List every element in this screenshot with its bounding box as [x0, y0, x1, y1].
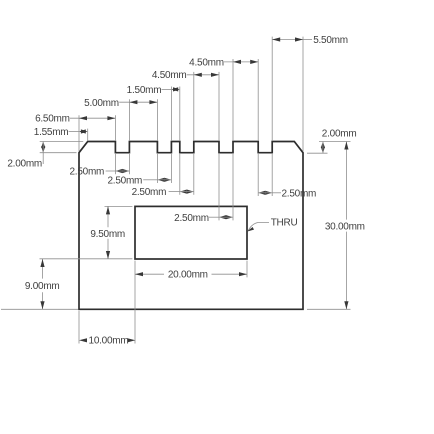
extension line slot2 left up	[156, 99, 158, 140]
dimension 9.00mm hole-bottom-to-part-bottom	[25, 259, 60, 309]
svg-text:30.00mm: 30.00mm	[325, 221, 365, 232]
extension line slot1 right up	[128, 99, 130, 140]
extension line left chamfer corner up	[87, 129, 89, 141]
extension line part right edge up	[302, 37, 304, 152]
extension line right chamfer bottom	[307, 152, 328, 154]
dimension 30.00mm part height	[325, 142, 365, 310]
svg-text:2.00mm: 2.00mm	[7, 159, 42, 170]
extension line slot3 left up	[179, 87, 181, 141]
dimension 1.50mm slot2-slot3 tab	[127, 85, 180, 96]
dimension 9.50mm hole height	[90, 206, 125, 259]
svg-text:2.50mm: 2.50mm	[108, 175, 143, 186]
svg-text:2.50mm: 2.50mm	[174, 213, 209, 224]
extension line slot2 right up	[170, 87, 172, 141]
extension line slot2 left down	[156, 154, 158, 183]
extension line slot4 right down	[232, 154, 234, 220]
extension line slot5 right down	[271, 154, 273, 196]
rectangular thru hole	[135, 206, 247, 259]
svg-text:4.50mm: 4.50mm	[152, 70, 187, 81]
part outline with five top slots and chamfered corners	[79, 142, 303, 310]
extension line part left edge up	[78, 115, 80, 151]
svg-text:9.00mm: 9.00mm	[25, 281, 60, 292]
extension line slot1 left down	[114, 154, 116, 174]
svg-text:4.50mm: 4.50mm	[189, 57, 224, 68]
svg-text:2.50mm: 2.50mm	[70, 167, 105, 178]
dimension 10.00mm left-edge-to-hole	[79, 336, 135, 347]
svg-text:1.55mm: 1.55mm	[34, 127, 69, 138]
dimension 5.50mm slot5-to-right-edge	[272, 35, 348, 46]
extension line slot4 right up	[232, 59, 234, 140]
dimension 4.50mm slot3-slot4 tab	[152, 70, 219, 81]
dimension 2.50mm slot5 width	[258, 188, 316, 199]
svg-text:9.50mm: 9.50mm	[90, 229, 125, 240]
extension line left chamfer bottom	[40, 152, 77, 154]
svg-text:2.00mm: 2.00mm	[322, 128, 357, 139]
extension line part bottom left	[1, 308, 78, 310]
extension line slot1 right down	[128, 154, 130, 174]
extension line hole bottom left long	[40, 258, 133, 260]
extension line slot3 right up	[193, 72, 195, 140]
extension line top edge left	[40, 141, 83, 143]
extension line slot3 left down	[179, 154, 181, 195]
dimension 2.50mm slot2 width	[108, 175, 172, 186]
dimension 2.00mm right chamfer height	[321, 128, 357, 153]
svg-text:6.50mm: 6.50mm	[35, 114, 70, 125]
dimension 6.50mm left-edge-to-slot1	[35, 114, 115, 125]
extension line slot1 left up	[114, 115, 116, 140]
extension line hole right edge down	[246, 261, 248, 278]
extension line part bottom right	[307, 308, 351, 310]
dimension 2.50mm slot3 width	[132, 187, 194, 198]
extension line part top right	[319, 141, 351, 143]
svg-text:5.50mm: 5.50mm	[313, 35, 348, 46]
extension line slot5 right up	[271, 37, 273, 141]
svg-text:1.50mm: 1.50mm	[127, 85, 162, 96]
extension line slot3 right down	[193, 154, 195, 195]
extension line slot5 left up	[257, 59, 259, 140]
dimension 5.00mm slot1-slot2 tab	[84, 98, 157, 109]
extension line hole top left	[105, 205, 133, 207]
extension line hole left edge down	[134, 261, 136, 344]
dimension 2.50mm slot1 width	[70, 167, 130, 178]
dimension 2.00mm left chamfer height	[7, 142, 45, 170]
svg-text:20.00mm: 20.00mm	[168, 270, 208, 281]
svg-text:5.00mm: 5.00mm	[84, 98, 119, 109]
THRU hole callout leader	[248, 223, 269, 231]
svg-text:THRU: THRU	[271, 218, 298, 229]
svg-text:2.50mm: 2.50mm	[282, 188, 317, 199]
extension line slot4 left down	[218, 154, 220, 220]
extension line slot2 right down	[170, 154, 172, 183]
extension line slot4 left up	[218, 72, 220, 140]
extension line part left edge below	[78, 311, 80, 344]
dimension 2.50mm slot4 width	[174, 213, 233, 224]
dimension 20.00mm hole width	[135, 270, 247, 281]
extension line slot5 left down	[257, 154, 259, 196]
dimension 1.55mm left chamfer width	[34, 127, 88, 138]
svg-text:2.50mm: 2.50mm	[132, 187, 167, 198]
dimension 4.50mm slot4-slot5 tab	[189, 57, 258, 68]
svg-text:10.00mm: 10.00mm	[89, 336, 129, 347]
